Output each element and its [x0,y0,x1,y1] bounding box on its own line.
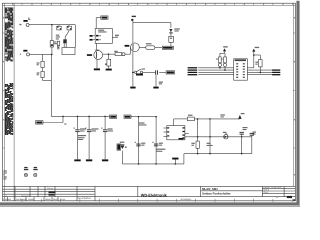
svg-text:Datum: Datum [28,198,35,201]
svg-text:Aenderung: Aenderung [16,198,27,201]
svg-text:Name: Name [45,198,52,201]
svg-text:Norm: Norm [53,198,59,201]
svg-text:Zustand: Zustand [3,198,12,201]
svg-text:Urspr.: Urspr. [60,198,66,201]
svg-text:Datum: Datum [47,187,53,190]
svg-text:Gepr.: Gepr. [264,191,270,194]
svg-text:29.05.2002: 29.05.2002 [271,186,282,189]
svg-text:Firma/Tel/Fax: Firma/Tel/Fax [77,197,92,200]
svg-text:Umbau Funkschalter: Umbau Funkschalter [202,191,231,195]
svg-text:Bl.: Bl. [276,196,279,199]
svg-text:Schaltplan: Schaltplan [181,198,192,201]
svg-text:WD-Elektronik: WD-Elektronik [141,193,168,197]
svg-text:29.5.02a: 29.5.02a [21,195,31,198]
